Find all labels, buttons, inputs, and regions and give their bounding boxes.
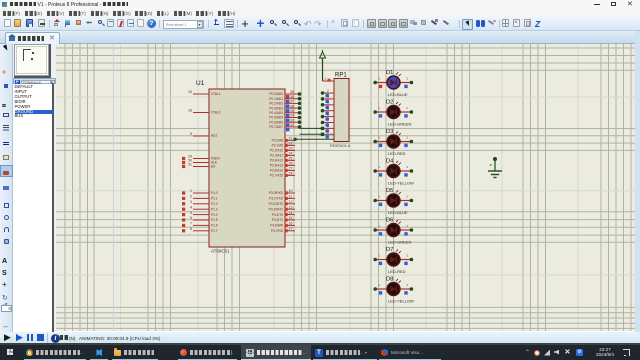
- svg-text:D2: D2: [386, 100, 393, 106]
- svg-text:32: 32: [290, 123, 294, 127]
- svg-text:34: 34: [290, 114, 294, 118]
- svg-text:P1.7: P1.7: [211, 229, 218, 233]
- svg-text:P3.7/RD: P3.7/RD: [271, 229, 284, 233]
- svg-text:P0.0/AD0: P0.0/AD0: [269, 92, 283, 96]
- svg-text:P3.0/RXD: P3.0/RXD: [269, 191, 284, 195]
- svg-text:2: 2: [407, 77, 409, 81]
- svg-text:37: 37: [290, 100, 294, 104]
- svg-text:39: 39: [290, 90, 294, 94]
- svg-text:D7: D7: [386, 247, 393, 253]
- svg-text:12: 12: [289, 200, 293, 204]
- svg-text:2: 2: [407, 106, 409, 110]
- svg-text:P3.4/T0: P3.4/T0: [272, 213, 283, 217]
- svg-text:1: 1: [379, 195, 381, 199]
- svg-text:18: 18: [188, 109, 192, 113]
- svg-text:RESPACK-8: RESPACK-8: [330, 144, 350, 148]
- svg-text:9: 9: [327, 131, 329, 135]
- svg-text:U1: U1: [196, 80, 205, 87]
- svg-text:21: 21: [289, 137, 293, 141]
- svg-text:38: 38: [290, 95, 294, 99]
- svg-text:P0.3/AD3: P0.3/AD3: [269, 106, 283, 110]
- svg-text:1: 1: [379, 165, 381, 169]
- svg-text:P2.4/A12: P2.4/A12: [270, 159, 283, 163]
- svg-text:2: 2: [407, 254, 409, 258]
- svg-text:P0.4/AD4: P0.4/AD4: [269, 111, 283, 115]
- svg-text:15: 15: [289, 216, 293, 220]
- svg-text:P2.3/A11: P2.3/A11: [270, 154, 283, 158]
- svg-text:35: 35: [290, 109, 294, 113]
- svg-text:11: 11: [289, 195, 293, 199]
- svg-text:17: 17: [289, 227, 293, 231]
- svg-text:36: 36: [290, 104, 294, 108]
- svg-text:P2.6/A14: P2.6/A14: [270, 169, 283, 173]
- svg-text:2: 2: [327, 89, 329, 93]
- svg-text:P1.4: P1.4: [211, 213, 218, 217]
- svg-text:P1.3: P1.3: [211, 207, 218, 211]
- svg-text:22: 22: [289, 142, 293, 146]
- svg-text:19: 19: [188, 90, 192, 94]
- svg-text:2: 2: [190, 195, 192, 199]
- svg-text:24: 24: [289, 152, 293, 156]
- svg-text:23: 23: [289, 147, 293, 151]
- svg-text:3: 3: [327, 95, 329, 99]
- svg-text:RP1: RP1: [335, 73, 347, 79]
- svg-text:P2.0/A8: P2.0/A8: [272, 139, 284, 143]
- svg-text:28: 28: [289, 172, 293, 176]
- svg-text:LED-GREEN: LED-GREEN: [388, 240, 411, 245]
- svg-text:4: 4: [327, 101, 329, 105]
- svg-text:6: 6: [327, 113, 329, 117]
- svg-text:P3.3/INT1: P3.3/INT1: [269, 207, 284, 211]
- svg-text:P1.0: P1.0: [211, 191, 218, 195]
- svg-text:RST: RST: [211, 134, 217, 138]
- svg-text:P2.5/A13: P2.5/A13: [270, 164, 283, 168]
- svg-text:D6: D6: [386, 218, 393, 224]
- svg-text:P2.1/A9: P2.1/A9: [272, 144, 284, 148]
- svg-text:XTAL2: XTAL2: [211, 111, 221, 115]
- svg-text:31: 31: [188, 163, 192, 167]
- svg-text:1: 1: [379, 106, 381, 110]
- svg-text:13: 13: [289, 205, 293, 209]
- svg-text:D3: D3: [386, 129, 393, 135]
- svg-text:25: 25: [289, 157, 293, 161]
- svg-text:LED-BLUE: LED-BLUE: [388, 210, 408, 215]
- svg-text:LED-BLUE: LED-BLUE: [388, 92, 408, 97]
- svg-text:27: 27: [289, 167, 293, 171]
- svg-text:P0.5/AD5: P0.5/AD5: [269, 116, 283, 120]
- svg-text:7: 7: [327, 119, 329, 123]
- svg-text:P3.6/WR: P3.6/WR: [270, 224, 283, 228]
- svg-text:6: 6: [190, 216, 192, 220]
- svg-text:P3.1/TXD: P3.1/TXD: [269, 197, 284, 201]
- svg-text:P2.2/A10: P2.2/A10: [270, 149, 283, 153]
- svg-text:9: 9: [190, 132, 192, 136]
- svg-text:D1: D1: [386, 70, 393, 76]
- svg-text:3: 3: [190, 200, 192, 204]
- svg-text:P3.5/T1: P3.5/T1: [272, 218, 283, 222]
- svg-text:1: 1: [379, 283, 381, 287]
- svg-text:2: 2: [407, 283, 409, 287]
- svg-text:P1.6: P1.6: [211, 224, 218, 228]
- svg-text:AT89C51: AT89C51: [211, 249, 230, 254]
- svg-text:LED-YELLOW: LED-YELLOW: [388, 181, 414, 186]
- svg-text:XTAL1: XTAL1: [211, 92, 221, 96]
- svg-text:P2.7/A15: P2.7/A15: [270, 174, 283, 178]
- svg-text:33: 33: [290, 118, 294, 122]
- svg-text:P0.6/AD6: P0.6/AD6: [269, 120, 283, 124]
- svg-text:5: 5: [190, 211, 192, 215]
- svg-text:4: 4: [190, 205, 192, 209]
- svg-text:P1.5: P1.5: [211, 218, 218, 222]
- svg-text:P3.2/INT0: P3.2/INT0: [269, 202, 284, 206]
- svg-text:D8: D8: [386, 277, 393, 283]
- svg-text:LED-RED: LED-RED: [388, 151, 406, 156]
- svg-text:26: 26: [289, 162, 293, 166]
- svg-text:P1.1: P1.1: [211, 197, 218, 201]
- svg-text:8: 8: [327, 125, 329, 129]
- svg-text:P0.7/AD7: P0.7/AD7: [269, 125, 283, 129]
- svg-text:8: 8: [190, 227, 192, 231]
- svg-text:D5: D5: [386, 188, 393, 194]
- svg-text:1: 1: [324, 77, 326, 81]
- svg-text:2: 2: [407, 165, 409, 169]
- svg-text:P0.1/AD1: P0.1/AD1: [269, 97, 283, 101]
- svg-text:P0.2/AD2: P0.2/AD2: [269, 102, 283, 106]
- svg-text:14: 14: [289, 211, 293, 215]
- svg-text:1: 1: [379, 77, 381, 81]
- svg-text:LED-GREEN: LED-GREEN: [388, 122, 411, 127]
- svg-text:D4: D4: [386, 159, 394, 165]
- svg-text:5: 5: [327, 107, 329, 111]
- svg-text:1: 1: [190, 189, 192, 193]
- svg-text:2: 2: [407, 195, 409, 199]
- svg-text:LED-YELLOW: LED-YELLOW: [388, 299, 414, 304]
- svg-text:7: 7: [190, 222, 192, 226]
- svg-text:16: 16: [289, 222, 293, 226]
- svg-text:LED-RED: LED-RED: [388, 269, 406, 274]
- svg-text:1: 1: [379, 254, 381, 258]
- svg-text:P1.2: P1.2: [211, 202, 218, 206]
- svg-text:10: 10: [289, 189, 293, 193]
